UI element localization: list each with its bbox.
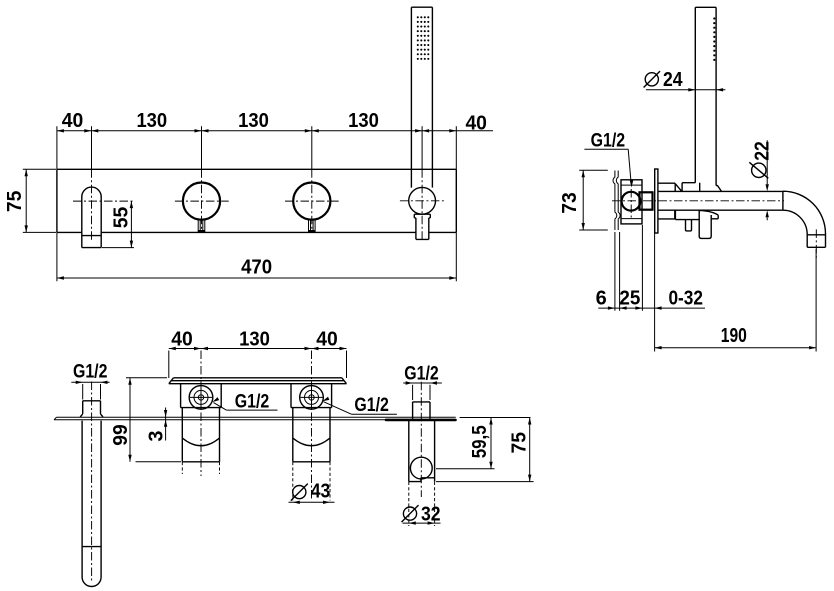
svg-text:130: 130 (238, 110, 269, 132)
svg-text:G1/2: G1/2 (354, 395, 389, 416)
svg-text:40: 40 (171, 328, 193, 350)
svg-text:G1/2: G1/2 (235, 392, 270, 413)
svg-text:G1/2: G1/2 (591, 131, 626, 152)
svg-text:32: 32 (421, 504, 441, 526)
svg-text:470: 470 (241, 257, 272, 279)
svg-text:6: 6 (596, 288, 607, 310)
svg-text:130: 130 (136, 110, 167, 132)
svg-text:0-32: 0-32 (668, 288, 703, 310)
svg-text:190: 190 (721, 325, 747, 347)
svg-text:43: 43 (311, 481, 331, 503)
svg-text:59,5: 59,5 (469, 425, 491, 458)
svg-text:40: 40 (465, 113, 487, 135)
svg-text:24: 24 (663, 69, 683, 91)
svg-text:99: 99 (110, 424, 132, 446)
svg-text:25: 25 (619, 288, 640, 310)
svg-text:40: 40 (316, 328, 338, 350)
svg-text:55: 55 (111, 207, 133, 229)
svg-text:75: 75 (509, 432, 531, 454)
svg-text:G1/2: G1/2 (73, 362, 108, 383)
svg-text:130: 130 (239, 328, 270, 350)
svg-text:40: 40 (62, 110, 84, 132)
svg-text:75: 75 (4, 191, 26, 213)
svg-text:73: 73 (559, 192, 581, 214)
svg-text:22: 22 (752, 141, 774, 161)
svg-text:3: 3 (146, 430, 168, 441)
svg-text:G1/2: G1/2 (404, 363, 439, 384)
svg-text:130: 130 (348, 110, 379, 132)
